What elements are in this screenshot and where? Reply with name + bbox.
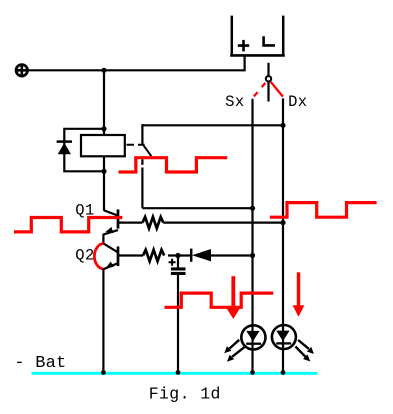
capacitor C1 plate bottom (171, 272, 186, 275)
red waveform at relay contact (119, 158, 228, 172)
plus supply terminal (16, 65, 27, 76)
node R1 to Dx (280, 220, 285, 225)
transistor Q2 emitter (104, 262, 118, 270)
LED LD2 (272, 325, 296, 349)
resistor R1 (143, 217, 164, 228)
node D2 to Sx (250, 253, 255, 258)
wire Q2 emitter to rail (102, 269, 104, 373)
node rail LD2 (281, 370, 286, 375)
LED LD1 (241, 325, 265, 349)
transistor Q1 collector (104, 210, 117, 215)
transistor Q2 collector (104, 244, 118, 253)
transistor Q1 base bar (117, 209, 120, 228)
battery box B1 (230, 16, 285, 56)
wire Q2 base to R2 (119, 254, 143, 256)
node rail capacitor (176, 370, 181, 375)
switch throw to Dx (red) (271, 82, 283, 97)
red waveform at capacitor (165, 293, 274, 307)
capacitor C1 plate top (171, 267, 186, 270)
wire diode branch (64, 129, 104, 172)
wire cap top lead (177, 256, 179, 268)
node loop bottom to Sx (250, 206, 255, 211)
lamp L label (264, 36, 275, 45)
red waveform at Dx (270, 203, 377, 218)
wire Q1 base to R1 (119, 222, 143, 224)
resistor R2 (143, 250, 164, 261)
red current arrow left (226, 276, 240, 319)
wire Sx column (251, 99, 253, 373)
svg-text:- Bat: - Bat (14, 354, 66, 373)
wire supply to battery box (28, 56, 245, 71)
red waveform at Q1 base (14, 218, 122, 232)
wire main rail vertical (103, 70, 105, 211)
transistor Q1 emitter (103, 227, 118, 235)
switch pole stem (267, 82, 269, 102)
node rail LD1 (250, 370, 255, 375)
wire R1 to Dx column (163, 222, 283, 224)
svg-text:Dx: Dx (288, 93, 307, 111)
wire battery to switch pole (267, 63, 269, 77)
node loop top to Dx (280, 123, 285, 128)
wire loop top corner (141, 124, 143, 144)
node relay top (101, 126, 106, 131)
wire cap bottom lead (177, 275, 179, 373)
wire contact loop bottom (142, 207, 252, 209)
wire contact loop left (141, 172, 143, 208)
wire contact loop top (142, 124, 283, 126)
node relay bottom (101, 169, 106, 174)
diode D2 (192, 249, 211, 261)
LED LD1 emission arrows (224, 340, 245, 362)
wire D2 to Sx column (211, 254, 253, 256)
battery plus label (238, 40, 249, 52)
mechanical link dashes (127, 144, 145, 146)
wire R2 to D2 (168, 254, 191, 256)
cyan ground rail (32, 372, 318, 375)
red current arrow right (293, 272, 305, 317)
capacitor plus label (169, 259, 176, 266)
node supply junction (101, 68, 106, 73)
diode D1 (58, 143, 71, 154)
relay coil K1 (81, 135, 125, 156)
wire dashed below blade (141, 159, 143, 172)
wire Q1 emitter to Q2 (102, 234, 104, 244)
diode D1 cathode bar (57, 140, 72, 143)
svg-text:Fig. 1d: Fig. 1d (149, 385, 221, 404)
switch throw to Sx (dashed red) (254, 83, 265, 97)
node rail main (101, 370, 106, 375)
svg-text:Sx: Sx (225, 93, 245, 111)
node capacitor junction (175, 253, 180, 258)
relay switch blade (142, 144, 151, 156)
diode D2 cathode bar (190, 249, 193, 262)
svg-text:Q2: Q2 (75, 246, 94, 264)
switch pivot circle (266, 76, 271, 81)
wire Dx column (282, 98, 284, 372)
LED LD2 emission arrows (296, 340, 315, 362)
transistor Q2 base bar (117, 246, 120, 266)
red arc at Q2 (94, 243, 103, 269)
